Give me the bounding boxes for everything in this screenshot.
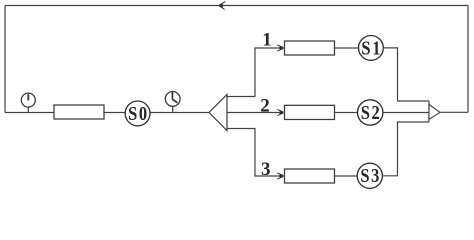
wire right vertical <box>467 6 469 113</box>
arrow into branch 1 box <box>277 45 284 51</box>
sensor S1 <box>359 36 384 61</box>
svg-text:1: 1 <box>372 37 380 59</box>
wire R1 to S1 <box>335 47 359 49</box>
svg-text:2: 2 <box>260 95 270 116</box>
resistor box R2 <box>285 105 335 119</box>
wire splitter to branch 1 <box>227 48 283 97</box>
resistor box R3 <box>285 169 335 183</box>
wire top loop <box>5 5 468 7</box>
wire R3 to S3 <box>335 175 358 177</box>
svg-text:S: S <box>361 37 370 59</box>
timer T2 (clock at 4:30) <box>165 92 180 113</box>
wire S2 to merge <box>383 112 429 114</box>
sensor S0 <box>125 101 150 126</box>
wire S3 to merge <box>382 122 429 176</box>
svg-text:0: 0 <box>139 102 147 124</box>
resistor box R1 <box>285 41 335 55</box>
merge triangle (mux) <box>429 105 440 120</box>
timer T1 (clock at 12:00) <box>21 93 35 112</box>
svg-text:2: 2 <box>371 102 379 124</box>
sensor S2 <box>358 100 383 125</box>
splitter triangle (demux) <box>209 95 227 131</box>
resistor box R0 <box>54 105 104 119</box>
wire main horizontal <box>5 112 209 114</box>
merge bar <box>428 101 430 122</box>
wire left vertical <box>4 6 6 113</box>
wire splitter to branch 2 <box>227 112 283 114</box>
arrow into branch 3 box <box>277 173 284 179</box>
wire R2 to S2 <box>335 112 358 114</box>
svg-text:1: 1 <box>262 30 272 51</box>
sensor S3 <box>357 163 382 188</box>
svg-text:S: S <box>360 165 369 187</box>
wire S1 to merge <box>383 48 429 101</box>
arrow on top wire (pointing left) <box>218 2 225 10</box>
wire merge output <box>440 111 468 113</box>
svg-text:3: 3 <box>371 165 379 187</box>
wire splitter to branch 3 <box>227 129 283 177</box>
svg-text:S: S <box>361 102 370 124</box>
svg-text:S: S <box>128 102 137 124</box>
svg-text:3: 3 <box>261 159 271 180</box>
arrow into branch 2 box <box>277 109 284 115</box>
